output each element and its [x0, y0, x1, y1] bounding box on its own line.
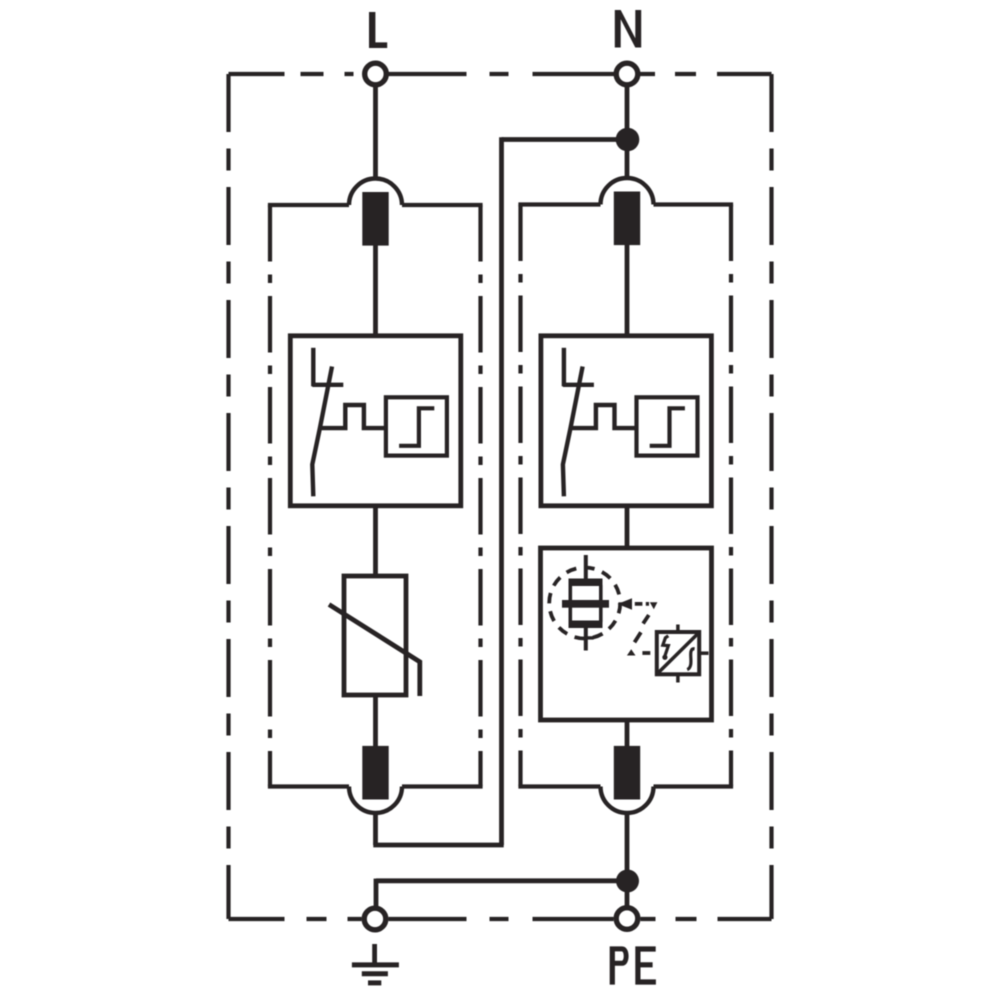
gas discharge tube bottom lead — [584, 627, 588, 651]
terminal PE open circle — [616, 908, 638, 930]
outer dashed enclosure border top edge — [229, 72, 772, 76]
wire left module output horizontal — [373, 843, 503, 848]
junction node above PE — [616, 870, 639, 893]
earth ground symbol bar 1 — [352, 962, 399, 967]
plug-in terminal right module top — [601, 178, 654, 245]
label N — [615, 10, 641, 48]
terminal L open circle — [365, 63, 387, 85]
varistor diagonal stroke — [329, 605, 420, 697]
varistor body — [344, 576, 406, 695]
earth ground symbol bar 2 — [362, 971, 388, 976]
wire varistor to left bottom terminal — [373, 693, 378, 748]
wire N terminal to right module — [625, 87, 630, 180]
label L — [369, 12, 387, 48]
plug-in terminal left module bottom — [349, 746, 402, 813]
left module dash-dot box right edge — [478, 205, 482, 787]
integral glyph — [687, 649, 694, 670]
lightning bolt glyph — [663, 636, 669, 656]
gas discharge tube side wall left — [568, 585, 572, 622]
wire ground branch vertical — [374, 879, 379, 906]
right module dash-dot box left edge — [518, 205, 522, 787]
spark gap assembly box — [541, 548, 712, 720]
wire right module output to PE — [625, 811, 630, 906]
dashed arrow head pointing left at circle — [618, 598, 633, 610]
wire right disconnect to spark gap box — [625, 504, 630, 550]
label PE — [610, 946, 656, 984]
outer dashed enclosure border left edge — [226, 74, 230, 919]
surge converter box — [657, 632, 699, 674]
dashed diagonal segments — [635, 615, 649, 642]
gas discharge tube dashed circle — [549, 568, 620, 639]
plug-in terminal left module top — [349, 179, 402, 246]
right module dash-dot box top edge — [518, 202, 733, 206]
gas discharge tube side wall right — [599, 585, 603, 622]
wire spark gap box to right bottom terminal — [625, 718, 630, 748]
small triangle arrowhead bottom of diagonal — [627, 649, 636, 655]
dashed segment to converter box — [642, 651, 650, 655]
gas discharge tube middle electrode bar — [562, 600, 609, 608]
ground terminal open circle — [364, 908, 386, 930]
plug-in terminal right module bottom — [601, 746, 654, 813]
surge converter box diagonal — [659, 634, 698, 673]
junction node on N wire — [616, 128, 640, 152]
gas discharge tube bottom electrode bar — [569, 621, 603, 629]
wire L terminal to left module — [373, 87, 378, 180]
gas discharge tube top lead — [584, 555, 588, 580]
outer dashed enclosure border right edge — [769, 74, 773, 919]
right module dash-dot box right edge — [729, 205, 733, 787]
gas discharge tube bottom lead tick — [586, 636, 594, 639]
wire left module output — [373, 813, 378, 845]
surge converter box bottom stub — [676, 674, 680, 683]
wire left disconnect to varistor — [373, 504, 378, 578]
lightning bolt dot — [662, 655, 667, 660]
left module dash-dot box bottom edge — [268, 784, 483, 788]
left module dash-dot box left edge — [268, 205, 272, 787]
surge converter box right stub — [699, 651, 709, 655]
small triangle arrowhead top of diagonal — [650, 602, 658, 609]
right module dash-dot box bottom edge — [518, 784, 733, 788]
surge converter box top stub — [676, 625, 680, 633]
wire junction to riser — [502, 137, 628, 142]
wire right terminal to disconnect — [625, 243, 630, 338]
gas discharge tube top electrode bar — [569, 579, 603, 587]
wire junction to ground branch horizontal — [376, 878, 627, 883]
wire left terminal to disconnect — [373, 243, 378, 338]
thermal disconnect device right (box) — [541, 336, 712, 506]
dashed arrow horizontal dashes — [635, 602, 649, 606]
earth ground symbol bar 3 — [368, 980, 381, 985]
riser wire between modules — [499, 137, 504, 845]
thermal disconnect device left (box) — [290, 336, 461, 506]
left module dash-dot box top edge — [268, 203, 483, 207]
outer dashed enclosure border bottom edge — [229, 917, 772, 921]
earth ground symbol stem — [372, 944, 377, 965]
terminal N open circle — [616, 63, 638, 85]
